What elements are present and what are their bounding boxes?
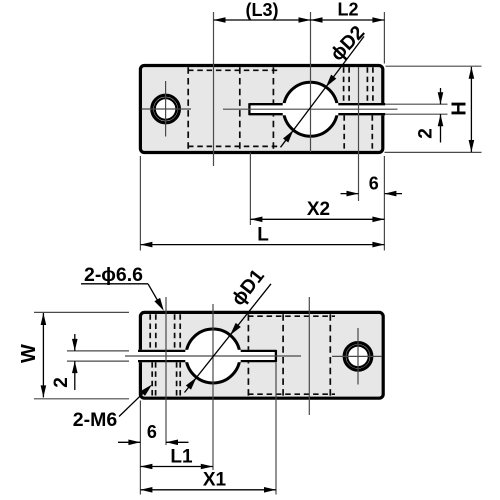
svg-text:6: 6 <box>369 174 379 194</box>
svg-text:X2: X2 <box>307 199 330 220</box>
svg-text:2-ϕ6.6: 2-ϕ6.6 <box>84 264 143 286</box>
hidden dashed lines top view <box>188 67 273 150</box>
dimension 6 (top view) <box>341 193 403 195</box>
svg-text:L2: L2 <box>337 0 358 20</box>
svg-text:W: W <box>18 344 40 363</box>
dimension X2 <box>250 218 384 220</box>
dimension X1 <box>140 489 276 491</box>
big bore circle D1 <box>186 329 240 383</box>
dimension (L3) <box>214 19 311 21</box>
top view body <box>140 66 382 153</box>
svg-text:L: L <box>257 225 269 246</box>
hidden dashed lines bottom view <box>248 314 330 396</box>
dimension L1 <box>140 466 212 468</box>
svg-text:2: 2 <box>416 128 437 139</box>
label 2-phi6.6 leader <box>81 284 161 306</box>
through hole top view <box>152 95 180 123</box>
svg-text:2-M6: 2-M6 <box>73 409 118 431</box>
clamp slit top view <box>248 103 385 115</box>
svg-text:L1: L1 <box>170 447 193 468</box>
svg-text:H: H <box>449 101 471 115</box>
dimension 6 (bottom view) <box>118 441 189 443</box>
dimension L <box>140 244 384 246</box>
svg-text:X1: X1 <box>203 470 227 491</box>
counterbore hole bottom view <box>344 343 372 371</box>
svg-text:(L3): (L3) <box>246 0 279 20</box>
label 2-M6 leader <box>119 389 148 417</box>
svg-text:6: 6 <box>147 422 157 442</box>
bottom view body <box>140 312 383 398</box>
svg-text:2: 2 <box>51 377 72 388</box>
centerlines top view <box>140 12 481 251</box>
dimension L2 <box>311 19 385 21</box>
dimension W <box>42 313 44 397</box>
centerlines bottom view <box>34 297 382 495</box>
clamp slit bottom view <box>138 350 276 362</box>
big bore circle D2 <box>284 82 338 136</box>
dimension 2 (slit width, right) <box>440 88 442 143</box>
dimension H <box>470 67 472 152</box>
dimension phiD2 leader <box>281 36 365 147</box>
dimension phiD1 leader <box>185 284 272 393</box>
dimension 2 (slit width, left) <box>74 334 76 390</box>
